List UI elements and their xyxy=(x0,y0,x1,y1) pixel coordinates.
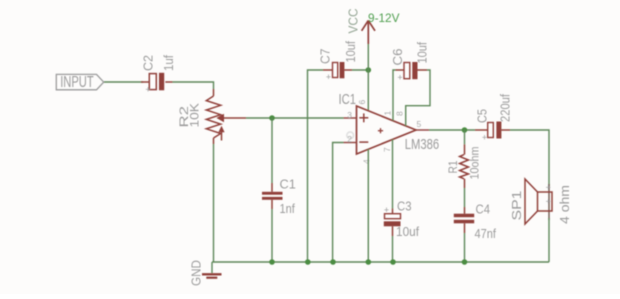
pin 5 output stub xyxy=(416,129,429,131)
wire C7 right to VCC node xyxy=(352,69,368,71)
op-amp center plus symbol xyxy=(378,128,383,133)
svg-text:C5: C5 xyxy=(475,109,490,123)
svg-text:+: + xyxy=(546,182,551,192)
pin 3 stub xyxy=(344,117,357,119)
wire pin 1 to C6 xyxy=(393,70,396,121)
op-amp IC1 triangle xyxy=(357,106,417,154)
node junction wiper/C1 xyxy=(269,115,275,121)
wire C7 left to GND rail xyxy=(308,70,324,262)
capacitor C7 xyxy=(323,62,352,78)
wire R2 bottom to GND rail xyxy=(213,144,215,262)
capacitor C3 xyxy=(384,209,401,237)
node faint circle near pin 2 xyxy=(347,132,354,139)
svg-text:1nf: 1nf xyxy=(280,201,296,216)
svg-text:R1: R1 xyxy=(446,160,460,173)
svg-text:6: 6 xyxy=(357,100,367,105)
wire C4 to GND rail xyxy=(464,233,466,262)
svg-text:8: 8 xyxy=(395,111,405,116)
op-amp minus input symbol xyxy=(359,141,368,143)
node junction output/R1 xyxy=(462,127,468,133)
pin 2 stub xyxy=(344,142,357,144)
potentiometer R2 xyxy=(206,89,246,144)
wire pin 7 to C3 xyxy=(392,139,394,208)
svg-text:10K: 10K xyxy=(188,103,202,128)
wire C5 to speaker xyxy=(510,130,549,186)
svg-text:+: + xyxy=(384,205,389,215)
svg-text:+: + xyxy=(482,133,487,143)
wire pin 2 to GND rail xyxy=(333,143,344,263)
capacitor C5 xyxy=(475,122,510,139)
supply VCC arrow xyxy=(362,21,375,45)
wire VCC arrow to junction xyxy=(367,44,369,70)
speaker SP1 xyxy=(525,179,552,224)
svg-text:1uf: 1uf xyxy=(161,55,176,71)
ground symbol xyxy=(202,262,222,278)
svg-text:10uf: 10uf xyxy=(343,41,358,63)
svg-text:GND: GND xyxy=(189,260,204,286)
wire R2 wiper to pin 3 xyxy=(246,117,344,119)
node rail dot C3 xyxy=(390,259,396,265)
wire INPUT to C2 xyxy=(104,81,143,83)
svg-text:SP1: SP1 xyxy=(509,191,524,221)
svg-text:10uf: 10uf xyxy=(415,42,430,64)
wire pin 4 to GND rail xyxy=(367,149,369,262)
svg-text:LM386: LM386 xyxy=(405,136,439,153)
wire speaker to GND rail xyxy=(548,218,550,262)
svg-text:5: 5 xyxy=(417,119,422,129)
svg-text:+: + xyxy=(145,85,150,95)
svg-text:C4: C4 xyxy=(476,202,491,217)
svg-text:220uf: 220uf xyxy=(498,94,513,122)
op-amp plus input symbol xyxy=(359,113,368,122)
svg-text:INPUT: INPUT xyxy=(60,74,94,91)
svg-text:C7: C7 xyxy=(318,49,333,65)
svg-text:C3: C3 xyxy=(397,198,412,213)
wire C2 to R2 xyxy=(173,82,214,89)
wire pin 6 xyxy=(367,70,369,111)
wire output to C5 xyxy=(429,129,475,131)
capacitor C4 xyxy=(454,207,474,233)
svg-text:4: 4 xyxy=(362,159,372,164)
resistor R1 xyxy=(460,144,469,188)
svg-text:+: + xyxy=(326,72,331,82)
capacitor C6 xyxy=(396,62,428,79)
svg-text:9-12V: 9-12V xyxy=(368,11,400,25)
node rail dot pin2 xyxy=(330,259,336,265)
svg-text:4 ohm: 4 ohm xyxy=(557,185,572,224)
svg-text:+: + xyxy=(546,197,551,207)
svg-text:7: 7 xyxy=(382,147,392,152)
wire C6 right to pin 8 xyxy=(406,70,430,126)
svg-text:+: + xyxy=(397,73,402,83)
svg-text:C2: C2 xyxy=(141,55,156,71)
wire C3 to GND rail xyxy=(392,236,394,262)
node junction VCC xyxy=(366,67,372,73)
capacitor C1 xyxy=(262,183,283,209)
svg-text:IC1: IC1 xyxy=(339,92,357,108)
svg-text:VCC: VCC xyxy=(347,9,361,34)
node rail dot C4 xyxy=(462,259,468,265)
wire R1 to C4 xyxy=(464,188,466,207)
node rail dot C1 xyxy=(269,259,275,265)
wire R1 top xyxy=(464,130,466,144)
wire GND rail xyxy=(212,261,549,263)
wire C1 to GND rail xyxy=(271,209,273,262)
svg-text:47nf: 47nf xyxy=(475,226,497,241)
svg-text:C1: C1 xyxy=(280,177,296,192)
svg-text:3: 3 xyxy=(347,110,352,120)
node rail dot pin4 xyxy=(366,259,372,265)
svg-text:1: 1 xyxy=(383,111,393,116)
connector INPUT pentagon xyxy=(56,74,103,89)
capacitor C2 xyxy=(141,73,173,91)
wire junction to C1 xyxy=(271,118,273,183)
svg-text:2: 2 xyxy=(347,134,352,144)
svg-text:10uf: 10uf xyxy=(396,224,419,239)
svg-text:10ohm: 10ohm xyxy=(468,147,482,180)
svg-text:C6: C6 xyxy=(390,49,405,66)
node rail dot C7 xyxy=(305,259,311,265)
